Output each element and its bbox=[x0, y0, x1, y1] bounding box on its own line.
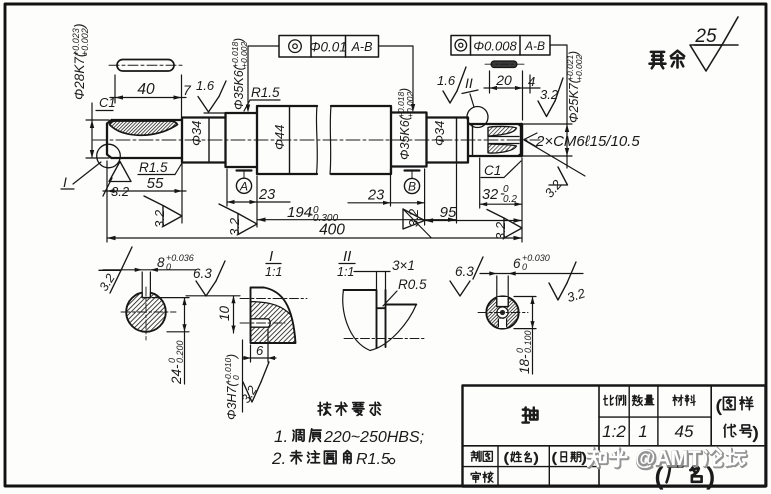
svg-text:): ) bbox=[534, 450, 538, 465]
watermark 知乎 @AMT论坛 bbox=[589, 448, 746, 471]
rotated roughness check at x182 bbox=[144, 196, 182, 228]
svg-text:1:1: 1:1 bbox=[337, 265, 354, 279]
svg-text:Φ34: Φ34 bbox=[432, 121, 447, 146]
header 比例 bbox=[604, 395, 626, 405]
svg-text:B: B bbox=[408, 180, 416, 194]
svg-text:6.3: 6.3 bbox=[193, 266, 212, 281]
Φ28K7 dim line bbox=[86, 103, 109, 158]
thread hole lines bbox=[488, 128, 519, 153]
shaft section Φ28 outline bbox=[107, 120, 182, 158]
note 1 调质220~250HBS bbox=[274, 427, 424, 446]
header 材料 bbox=[673, 395, 695, 405]
svg-text:A-B: A-B bbox=[351, 40, 373, 54]
svg-text:Φ28K7(: Φ28K7( bbox=[72, 51, 87, 100]
dim 23 left bbox=[227, 201, 290, 203]
note 2 未注圆角R1.5 bbox=[271, 449, 395, 468]
svg-text:23: 23 bbox=[367, 188, 384, 204]
svg-text:): ) bbox=[753, 425, 758, 442]
svg-text:R1.5: R1.5 bbox=[251, 85, 280, 100]
svg-text:6.3: 6.3 bbox=[455, 264, 474, 279]
dim 40 bbox=[110, 75, 186, 117]
审核 row bbox=[471, 472, 493, 483]
dim 55 bbox=[103, 190, 186, 192]
svg-text:Φ0.008: Φ0.008 bbox=[473, 39, 517, 54]
ledge for roughness 1.6 left bbox=[204, 112, 226, 114]
svg-text:(: ( bbox=[716, 398, 722, 415]
(厂名) bbox=[655, 463, 715, 489]
svg-text:24-: 24- bbox=[169, 364, 184, 385]
shaft section Φ44 left part bbox=[257, 106, 317, 174]
dim 400 bbox=[107, 237, 522, 239]
keyway crescent (hatched) bbox=[110, 121, 178, 135]
svg-text:0.100: 0.100 bbox=[523, 330, 533, 353]
detail circle II (groove) bbox=[467, 107, 488, 128]
svg-text:18-: 18- bbox=[517, 354, 532, 374]
svg-text:+0.002: +0.002 bbox=[239, 41, 249, 68]
shaft section Φ25K7 right journal bbox=[468, 124, 522, 156]
svg-text:4: 4 bbox=[528, 74, 535, 89]
dim 95 bbox=[425, 220, 522, 222]
dim 32 -0.2 bbox=[480, 203, 522, 205]
centerline detail II bbox=[344, 338, 425, 340]
dim 18 -0.100 (vertical) bbox=[514, 297, 536, 375]
title block table bbox=[463, 386, 766, 487]
roughness 3.2 under line (left) bbox=[99, 247, 132, 293]
shaft section Φ35K6 right bearing seat bbox=[391, 113, 427, 167]
svg-text:1.6: 1.6 bbox=[196, 78, 215, 93]
svg-text:II: II bbox=[343, 248, 351, 265]
dim 10 (vertical) bbox=[233, 296, 235, 333]
svg-text:R1.5: R1.5 bbox=[139, 160, 168, 175]
svg-text:+0.002: +0.002 bbox=[405, 91, 415, 118]
svg-text:3.2: 3.2 bbox=[406, 208, 421, 227]
end-face line for dim 10 bbox=[186, 295, 240, 297]
roughness 3.2 right bbox=[549, 262, 576, 300]
centerlines detail I bbox=[240, 298, 307, 300]
svg-text:7: 7 bbox=[183, 82, 192, 98]
svg-text:400: 400 bbox=[319, 222, 345, 239]
white slot bottom bbox=[498, 319, 506, 328]
rotated roughness check at x522 bbox=[487, 210, 522, 241]
center hole bbox=[497, 307, 508, 318]
threaded hole section hatch (bottom lens) bbox=[488, 144, 517, 153]
svg-text:3.2: 3.2 bbox=[542, 176, 566, 200]
svg-text:3.2: 3.2 bbox=[227, 217, 242, 236]
svg-text:0.2: 0.2 bbox=[503, 194, 517, 205]
keyway slot (plan symbol) bbox=[117, 60, 174, 72]
frame leaders bbox=[248, 46, 413, 109]
svg-text:Φ3H7(: Φ3H7( bbox=[225, 381, 239, 420]
svg-text:220~250HBS;: 220~250HBS; bbox=[323, 429, 424, 446]
svg-text:40: 40 bbox=[137, 81, 155, 98]
title text 轴 bbox=[522, 407, 537, 422]
tolerance frame Φ0.008 A-B bbox=[451, 36, 550, 56]
tech requirements 技术要求 bbox=[318, 402, 381, 415]
Φ25K7 label (rotated) bbox=[565, 51, 584, 123]
svg-text:2×CM6ℓ15/10.5: 2×CM6ℓ15/10.5 bbox=[535, 133, 640, 150]
svg-text:3.2: 3.2 bbox=[97, 271, 118, 293]
rotated roughness check at x424.6 on 95 line bbox=[403, 208, 431, 237]
dim 194 -0.300 bbox=[257, 219, 457, 221]
svg-text:Φ35K6(: Φ35K6( bbox=[232, 64, 246, 110]
extension lines bbox=[107, 158, 522, 242]
dim 6 +0.030/0 bbox=[480, 274, 583, 307]
dim 23 right bbox=[348, 202, 425, 204]
svg-text:2.: 2. bbox=[271, 449, 286, 468]
svg-text:10: 10 bbox=[217, 305, 232, 321]
svg-text:25: 25 bbox=[694, 26, 717, 47]
svg-text:1.: 1. bbox=[274, 427, 288, 446]
white slot top (Φ6) bbox=[497, 297, 508, 307]
svg-text:3.2: 3.2 bbox=[565, 285, 588, 305]
svg-text:A: A bbox=[239, 180, 248, 194]
threaded hole section hatch (top lens) bbox=[488, 126, 517, 136]
svg-text:6: 6 bbox=[256, 343, 264, 358]
svg-text:95: 95 bbox=[440, 204, 457, 221]
shaft section Φ34 (left) bbox=[182, 118, 226, 163]
svg-text:(: ( bbox=[504, 450, 509, 465]
big slant to roughness 3.2 under thread bbox=[524, 140, 585, 185]
thread slot symbol (top) bbox=[491, 61, 517, 68]
svg-text:20: 20 bbox=[495, 72, 512, 88]
svg-text:0: 0 bbox=[166, 262, 171, 272]
svg-text:Φ44: Φ44 bbox=[272, 125, 287, 150]
svg-text:Φ0.01: Φ0.01 bbox=[309, 40, 347, 55]
svg-text:3.2: 3.2 bbox=[152, 209, 167, 228]
svg-text:Φ35K6(: Φ35K6( bbox=[398, 114, 412, 160]
其余 25 roughness (top right) bbox=[650, 51, 685, 68]
dim 6 bbox=[243, 329, 276, 362]
roughness 3.2 under Φ3H7 bbox=[243, 362, 269, 402]
shaft section Φ35K6 left bearing seat bbox=[226, 113, 258, 167]
svg-text:55: 55 bbox=[147, 175, 164, 192]
white slot (Φ3 hole) bbox=[251, 319, 271, 327]
Φ0.008 leader / Φ25K7 dim line bbox=[523, 45, 572, 168]
svg-text:1: 1 bbox=[638, 422, 647, 441]
detail II body bbox=[343, 272, 417, 351]
dim 20 and 4 bbox=[484, 71, 540, 120]
keyway notch (white) bbox=[142, 290, 150, 298]
svg-text:0: 0 bbox=[522, 262, 527, 272]
Φ28K7 label (rotated) bbox=[71, 24, 90, 101]
svg-text:6: 6 bbox=[513, 256, 521, 271]
svg-text:1.6: 1.6 bbox=[437, 73, 456, 88]
svg-text:): ) bbox=[582, 450, 586, 465]
detail circle I (left end) bbox=[97, 144, 121, 168]
Φ3H7 label (rotated) bbox=[223, 354, 241, 420]
svg-text:8: 8 bbox=[157, 255, 165, 270]
outline bbox=[251, 288, 296, 344]
hatched circle bbox=[126, 292, 166, 332]
svg-text:C1: C1 bbox=[484, 163, 501, 178]
svg-text:32: 32 bbox=[482, 187, 498, 203]
制图 row bbox=[471, 450, 586, 465]
shaft section Φ44 right part bbox=[330, 106, 391, 174]
svg-text:3.2: 3.2 bbox=[239, 383, 260, 405]
svg-text:R1.5: R1.5 bbox=[356, 451, 390, 468]
rotated roughness check at x257 bbox=[219, 204, 257, 236]
svg-text:3.2: 3.2 bbox=[493, 221, 508, 240]
header 数量 bbox=[632, 395, 653, 405]
svg-text:3.2: 3.2 bbox=[111, 184, 130, 199]
detail I body bbox=[251, 288, 296, 344]
Φ34 label left (rotated) bbox=[189, 121, 204, 146]
tolerance frame Φ0.01 A-B bbox=[279, 36, 379, 58]
svg-text:1:2: 1:2 bbox=[602, 422, 626, 441]
undercut groove 3x1 bbox=[472, 124, 474, 156]
svg-text:Φ25K7(: Φ25K7( bbox=[567, 77, 581, 123]
datum B bbox=[404, 171, 419, 194]
dim 8 +0.036/0 bbox=[103, 270, 196, 292]
svg-text:(: ( bbox=[552, 450, 557, 465]
svg-text:R0.5: R0.5 bbox=[398, 277, 427, 292]
datum A bbox=[236, 171, 251, 194]
svg-text:II: II bbox=[465, 75, 473, 91]
svg-text:+0.002: +0.002 bbox=[80, 28, 90, 56]
svg-text:0.200: 0.200 bbox=[175, 340, 185, 363]
shaft centerline bbox=[93, 139, 540, 141]
dim 24 -0.200 (vertical) bbox=[152, 298, 189, 384]
Φ34 label right (rotated) bbox=[432, 121, 447, 146]
svg-text:23: 23 bbox=[258, 187, 275, 203]
leader + label II bbox=[470, 94, 474, 107]
svg-text:Φ34: Φ34 bbox=[189, 121, 204, 146]
Φ35K6 label right (rotated) bbox=[396, 88, 415, 160]
white fillet region bbox=[251, 288, 292, 316]
svg-text:0: 0 bbox=[231, 375, 241, 380]
svg-text:A-B: A-B bbox=[524, 39, 545, 53]
roughness 3.2 small (left end) bbox=[103, 162, 131, 197]
svg-text:+0.002: +0.002 bbox=[574, 54, 584, 81]
centerline bbox=[478, 312, 528, 314]
(图样 代号) bbox=[716, 397, 758, 442]
svg-text:45: 45 bbox=[675, 422, 694, 441]
leader + label I bbox=[73, 162, 101, 184]
svg-text:3×1: 3×1 bbox=[392, 258, 415, 273]
Φ44 label (rotated) bbox=[272, 125, 287, 150]
shaft section Φ34 right bbox=[427, 118, 469, 163]
svg-text:1:1: 1:1 bbox=[265, 265, 282, 279]
svg-text:@AMT: @AMT bbox=[635, 447, 701, 470]
svg-text:I: I bbox=[63, 174, 67, 190]
Φ35K6 label left (rotated) bbox=[230, 38, 249, 110]
circle centerlines bbox=[121, 287, 176, 340]
svg-text:I: I bbox=[269, 248, 273, 265]
